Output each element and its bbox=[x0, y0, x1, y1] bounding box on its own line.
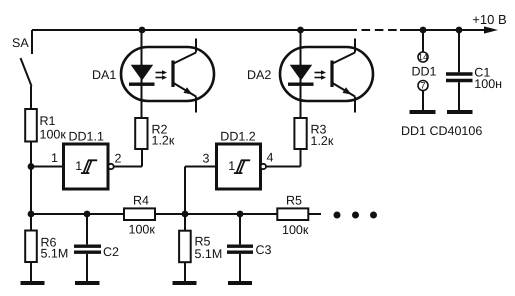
svg-text:C2: C2 bbox=[103, 245, 119, 259]
svg-text:3: 3 bbox=[203, 152, 210, 166]
svg-text:DD1: DD1 bbox=[412, 65, 437, 79]
svg-text:14: 14 bbox=[418, 52, 428, 62]
svg-text:DD1.1: DD1.1 bbox=[69, 130, 104, 144]
svg-text:DD1 CD40106: DD1 CD40106 bbox=[401, 124, 482, 138]
svg-text:R1: R1 bbox=[40, 114, 56, 128]
svg-text:R5: R5 bbox=[286, 194, 302, 208]
svg-text:2: 2 bbox=[115, 152, 122, 166]
svg-text:1.2к: 1.2к bbox=[152, 134, 175, 148]
svg-text:1: 1 bbox=[228, 159, 235, 173]
svg-text:R4: R4 bbox=[133, 194, 149, 208]
svg-text:DA1: DA1 bbox=[92, 68, 116, 82]
svg-text:C3: C3 bbox=[256, 243, 272, 257]
svg-text:5.1M: 5.1M bbox=[41, 247, 69, 261]
svg-text:7: 7 bbox=[420, 81, 425, 91]
svg-text:1: 1 bbox=[75, 159, 82, 173]
svg-text:4: 4 bbox=[267, 151, 274, 165]
svg-text:100н: 100н bbox=[474, 77, 502, 91]
svg-text:SA: SA bbox=[12, 36, 29, 50]
svg-text:100к: 100к bbox=[129, 223, 156, 237]
svg-text:100к: 100к bbox=[40, 128, 67, 142]
svg-text:DA2: DA2 bbox=[247, 68, 271, 82]
svg-text:1: 1 bbox=[51, 151, 58, 165]
svg-text:5.1M: 5.1M bbox=[195, 247, 223, 261]
svg-text:100к: 100к bbox=[282, 223, 309, 237]
svg-text:DD1.2: DD1.2 bbox=[220, 130, 255, 144]
svg-text:+10 В: +10 В bbox=[472, 12, 506, 27]
svg-text:1.2к: 1.2к bbox=[311, 134, 334, 148]
